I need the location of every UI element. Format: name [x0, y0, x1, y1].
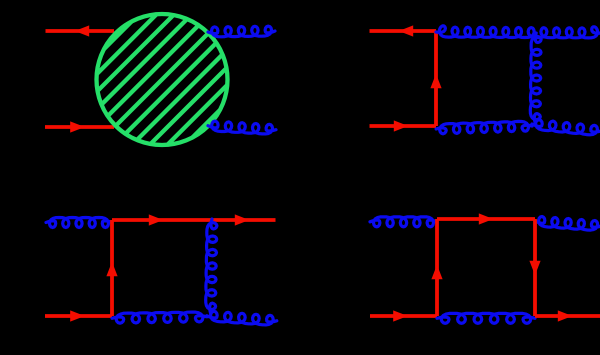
blob diagram: incoming quark line: [45, 125, 114, 129]
qqbar->gg diagram: bottom outgoing gluon: [532, 120, 600, 135]
qg->qg diagram A: internal quark arrow (pointing up): [106, 262, 117, 276]
blob diagram: quark arrow (pointing right): [70, 121, 85, 132]
qg->qg diagram B: internal quark line (top): [437, 217, 535, 221]
qg->qg diagram B: incoming quark line (bottom left): [370, 314, 437, 318]
qg->qg diagram A: bottom internal gluon: [112, 312, 207, 323]
qg->qg diagram B: bottom gluon propagator: [437, 313, 535, 323]
blob diagram: incoming antiquark line: [46, 29, 115, 33]
qg->qg diagram A: incoming gluon (top left): [46, 218, 112, 228]
qqbar->gg diagram: bottom internal gluon: [436, 121, 532, 133]
qg->qg diagram B: right internal quark propagator (vertical): [533, 219, 537, 316]
blob diagram: outgoing gluon (top right): [208, 26, 275, 37]
qg->qg diagram B: left internal quark arrow (pointing up): [431, 265, 442, 279]
blob diagram: outgoing gluon (bottom right): [208, 121, 276, 134]
qg->qg diagram A: outgoing gluon (bottom right): [207, 311, 277, 325]
qg->qg diagram B: right internal quark arrow (pointing down): [529, 261, 540, 275]
qg->qg diagram B: top quark arrow (pointing right): [479, 213, 493, 224]
qg->qg diagram A: quark arrow 1 (pointing right): [149, 214, 163, 225]
qg->qg diagram B: outgoing quark line (bottom right): [535, 314, 600, 318]
qg->qg diagram B: left internal quark propagator (vertical): [435, 219, 439, 316]
blob diagram: antiquark arrow (pointing left): [75, 25, 89, 36]
qqbar->gg diagram: quark arrow (pointing right): [394, 120, 408, 131]
qg->qg diagram A: incoming quark arrow (pointing right): [70, 310, 85, 321]
qqbar->gg diagram: top gluon (vertex to right edge): [436, 26, 600, 38]
qqbar->gg diagram: internal quark arrow (pointing up): [430, 74, 441, 88]
qg->qg diagram B: incoming gluon (top left): [370, 217, 437, 227]
qg->qg diagram B: incoming quark arrow (pointing right): [393, 310, 408, 321]
qg->qg diagram A: internal quark propagator (vertical): [110, 220, 114, 316]
qqbar->gg diagram: internal quark propagator (vertical): [434, 31, 438, 126]
qg->qg diagram B: outgoing quark arrow (pointing right): [558, 310, 572, 321]
qqbar->gg diagram: vertical gluon propagator: [530, 33, 541, 123]
qg->qg diagram A: outgoing quark line (top): [112, 218, 276, 222]
qqbar->gg diagram: incoming antiquark line: [370, 29, 437, 33]
qqbar->gg diagram: antiquark arrow (pointing left): [399, 25, 413, 36]
qg->qg diagram A: quark arrow 2 (pointing right): [235, 214, 249, 225]
qqbar->gg diagram: incoming quark line: [370, 124, 437, 128]
qg->qg diagram A: incoming quark line (bottom): [45, 314, 112, 318]
qg->qg diagram B: outgoing gluon (top right): [535, 217, 600, 231]
qg->qg diagram A: vertical gluon propagator: [206, 219, 217, 313]
